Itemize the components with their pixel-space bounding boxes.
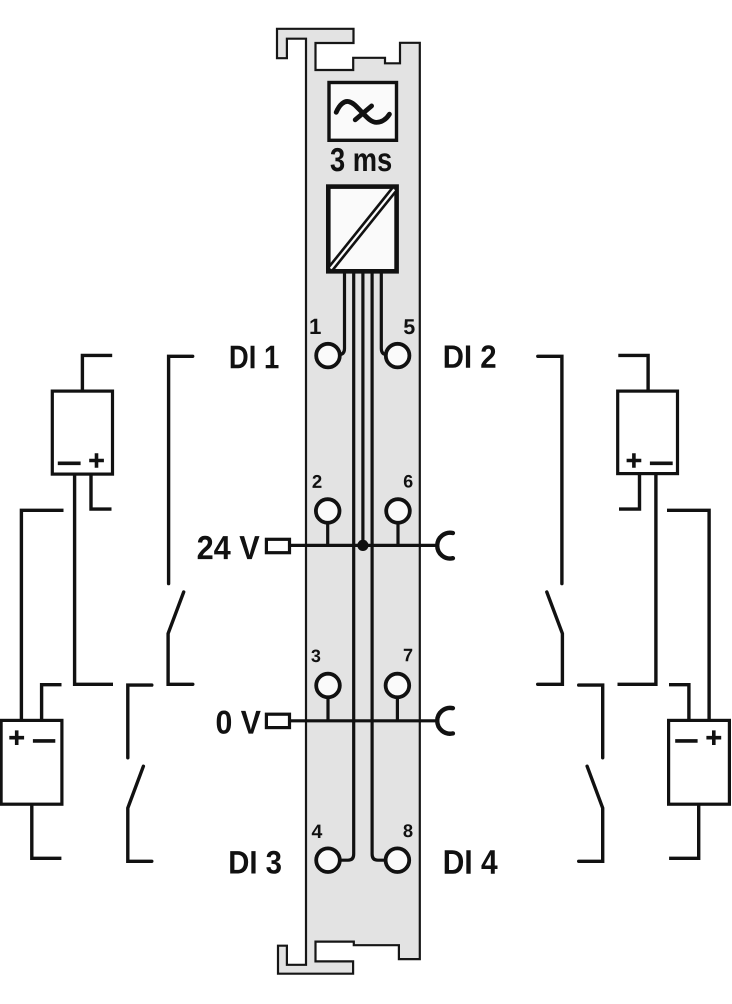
label DI 4 <box>445 850 498 874</box>
label DI 1 <box>231 346 279 369</box>
module body outline (DIN-rail bus terminal profile) <box>277 29 420 974</box>
filter box (input filter) <box>329 83 397 141</box>
wire from isolation box to terminal 5 <box>381 271 387 355</box>
isolation diagonal double line <box>331 190 394 269</box>
terminal 5 <box>386 344 410 368</box>
switch S3 (DI3 branch) <box>128 685 152 861</box>
stub terminal 6 to 24V rail <box>396 523 399 546</box>
battery G3 top wire to DI2 row <box>618 355 648 391</box>
pin number 1 <box>310 319 320 334</box>
battery G4 wire up to 24V level <box>667 510 709 720</box>
battery G3 minus mark <box>650 461 673 465</box>
24V rail <box>290 544 439 547</box>
label 0 V <box>217 711 261 734</box>
battery G1 (left top) <box>52 391 112 474</box>
24V terminal connector symbol <box>266 539 289 552</box>
battery G4 plus mark <box>706 730 721 745</box>
wire from isolation box to terminal 8 <box>372 271 385 860</box>
label DI 2 <box>445 345 496 368</box>
battery G1 plus wire to 24V <box>91 474 112 509</box>
battery G4 bottom wire <box>669 804 699 858</box>
pin number 6 <box>404 475 413 488</box>
terminal 4 <box>316 848 340 872</box>
pin number 5 <box>404 319 415 334</box>
battery G4 minus mark <box>675 739 697 743</box>
stub terminal 2 to 24V rail <box>326 523 329 546</box>
filter symbol (sine wave with slash) <box>336 101 389 122</box>
pin number 2 <box>313 475 322 488</box>
opto-isolation box <box>328 187 396 272</box>
label 24 V <box>198 536 260 559</box>
label DI 3 <box>230 851 281 874</box>
terminal 3 <box>316 674 340 698</box>
stub terminal 3 to 0V rail <box>326 697 329 720</box>
pin number 3 <box>311 650 320 663</box>
24V potential jumper contact (open arc) <box>437 533 453 559</box>
pin number 4 <box>312 825 322 838</box>
battery G2 plus mark <box>9 730 24 745</box>
battery G4 wire up to 0V level <box>669 685 689 721</box>
battery G3 plus wire to 24V <box>619 474 640 510</box>
battery G1 top wire to DI1 row <box>82 355 112 391</box>
terminal 7 <box>386 674 410 698</box>
junction dot on 24V rail <box>357 540 368 551</box>
wire from isolation box to 24V rail <box>361 271 364 545</box>
battery G1 plus mark <box>89 453 104 468</box>
battery G3 minus wire down <box>618 474 656 685</box>
label 3 ms <box>331 148 392 172</box>
battery G3 (right top) <box>618 391 678 474</box>
switch S4 (DI4 branch) <box>579 685 603 861</box>
switch S1 (DI1 branch) <box>168 356 193 684</box>
battery G2 wire up to 24V level <box>21 510 63 720</box>
battery G2 wire up to 0V level <box>42 685 62 721</box>
battery G1 minus mark <box>58 461 81 465</box>
0V potential jumper contact (open arc) <box>437 708 453 734</box>
battery G3 plus mark <box>627 453 642 468</box>
terminal 2 <box>316 499 340 523</box>
terminal 8 <box>386 848 410 872</box>
wire from isolation box to terminal 4 <box>341 271 354 860</box>
stub terminal 7 to 0V rail <box>396 697 399 720</box>
battery G4 (right bottom) <box>669 720 730 804</box>
battery G2 bottom wire <box>32 804 62 858</box>
pin number 8 <box>403 824 412 837</box>
battery G2 (left bottom) <box>1 720 62 804</box>
pin number 7 <box>404 649 412 661</box>
terminal 1 <box>316 344 340 368</box>
wire from isolation box to terminal 1 <box>339 271 345 355</box>
0V rail <box>290 719 439 722</box>
switch S2 (DI2 branch) <box>538 356 563 684</box>
terminal 6 <box>386 499 410 523</box>
battery G1 minus wire down <box>75 474 113 684</box>
battery G2 minus mark <box>33 739 55 743</box>
0V terminal connector symbol <box>266 714 289 727</box>
